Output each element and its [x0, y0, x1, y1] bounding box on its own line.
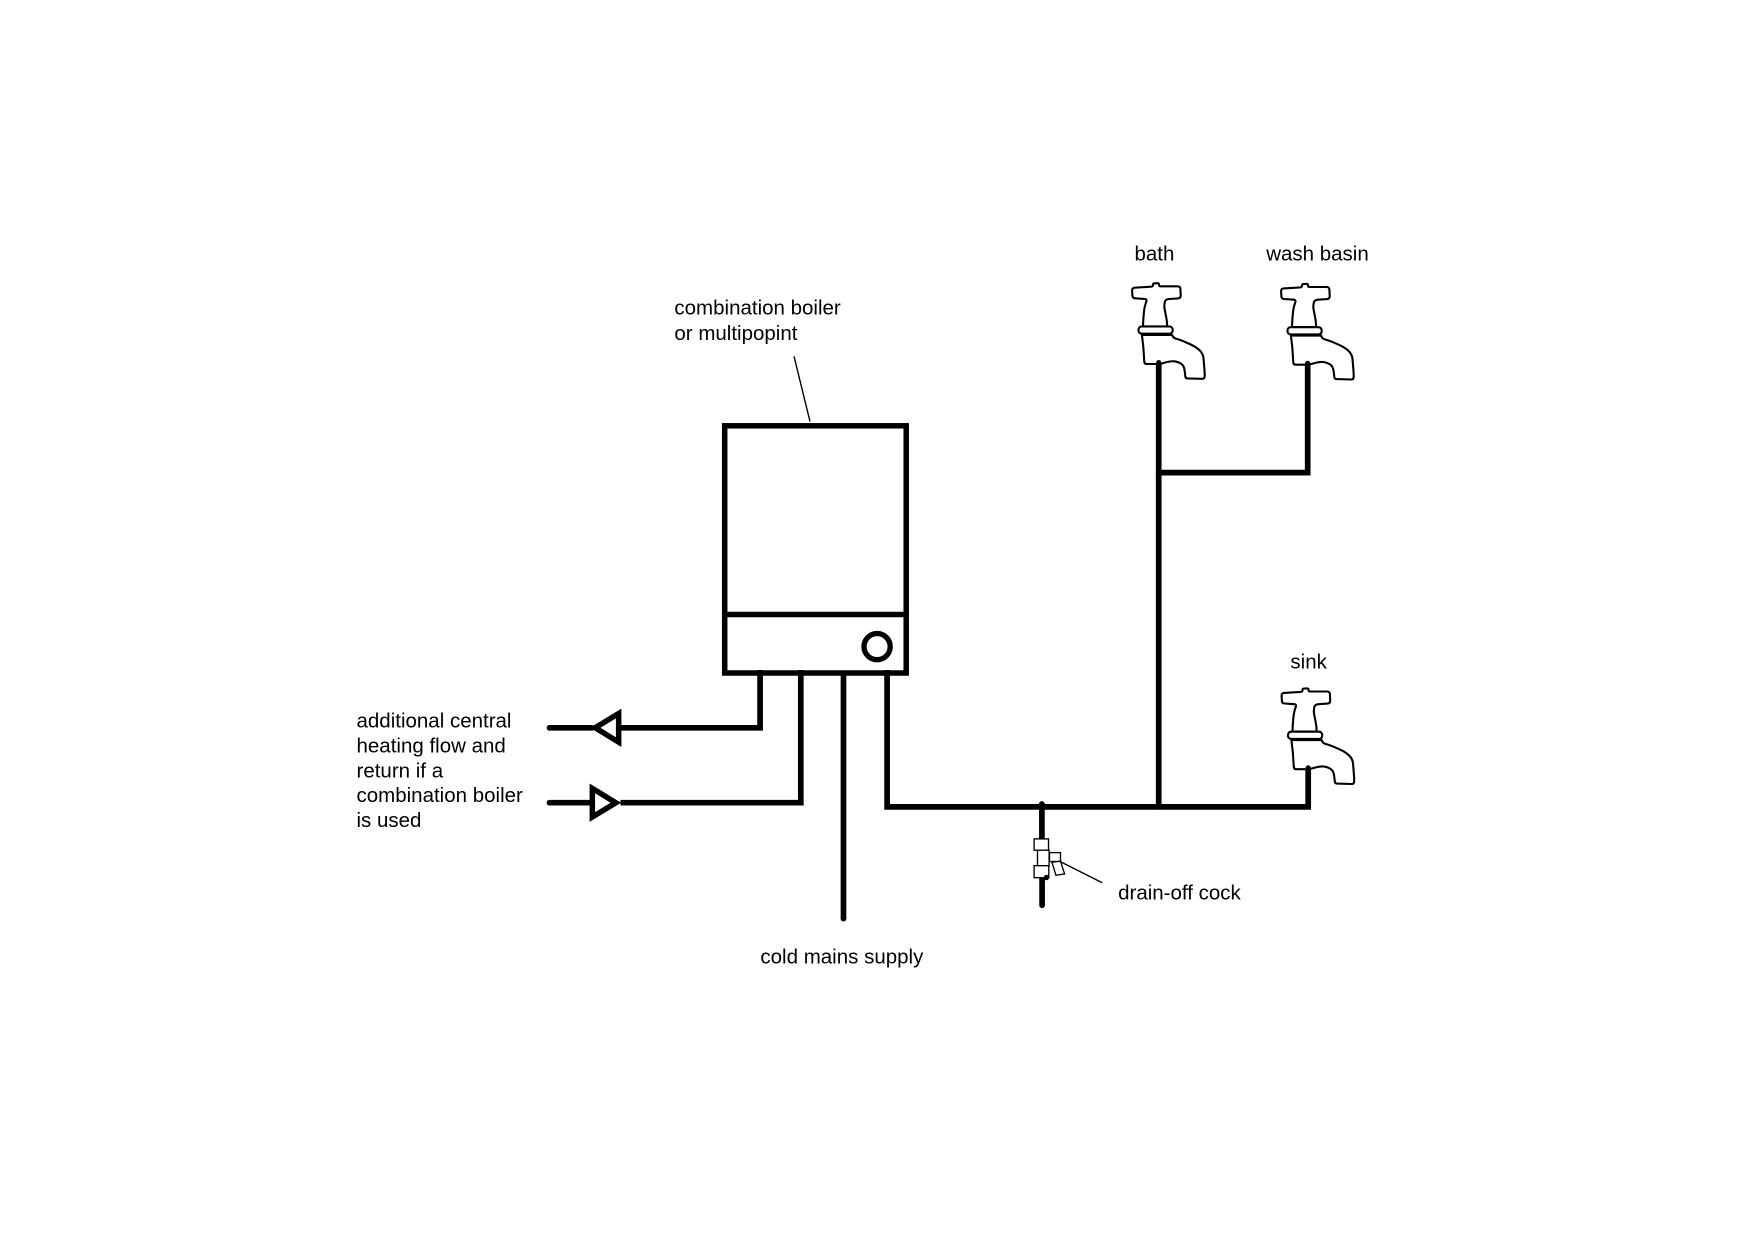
outlet dot wash basin — [1305, 361, 1310, 366]
outlet dot sink — [1306, 765, 1311, 770]
arrow return (right) — [590, 784, 622, 822]
boiler outline — [725, 426, 907, 673]
svg-text:sink: sink — [1290, 651, 1327, 674]
drain-off cock valve — [1034, 839, 1065, 878]
svg-text:or multipopint: or multipopint — [674, 322, 797, 345]
svg-text:bath: bath — [1135, 242, 1175, 265]
drain label leader — [1061, 862, 1102, 883]
svg-text:combination boiler: combination boiler — [357, 784, 524, 807]
wire: drain branch lower — [1039, 878, 1045, 905]
svg-text:return if a: return if a — [357, 759, 444, 782]
drain valve dot — [1044, 875, 1049, 880]
boiler label leader — [794, 356, 810, 421]
boiler divider — [722, 612, 909, 618]
wire: bath tap drop — [1156, 363, 1162, 807]
svg-text:drain-off cock: drain-off cock — [1118, 881, 1241, 904]
wire: lower arrow pipe (central heating return) — [550, 800, 591, 806]
wire: cold mains supply stub — [841, 671, 847, 919]
svg-text:combination boiler: combination boiler — [674, 297, 841, 320]
wire: hot water main to taps — [887, 670, 1308, 807]
svg-text:is used: is used — [357, 809, 422, 832]
tap sink — [1282, 688, 1355, 784]
wire: upper arrow pipe (central heating flow) — [550, 725, 593, 731]
wire: wash basin drop and connector — [1159, 364, 1308, 473]
outlet dot bath — [1156, 360, 1161, 365]
svg-text:wash basin: wash basin — [1265, 242, 1369, 265]
tap bath — [1132, 283, 1205, 379]
wire: drain branch upper — [1039, 804, 1045, 839]
boiler circle knob — [864, 634, 890, 660]
svg-text:additional central: additional central — [357, 710, 512, 733]
arrow flow (left) — [590, 709, 622, 747]
svg-text:heating flow and: heating flow and — [357, 735, 506, 758]
tap wash basin — [1281, 284, 1354, 380]
svg-text:cold mains supply: cold mains supply — [760, 946, 924, 969]
